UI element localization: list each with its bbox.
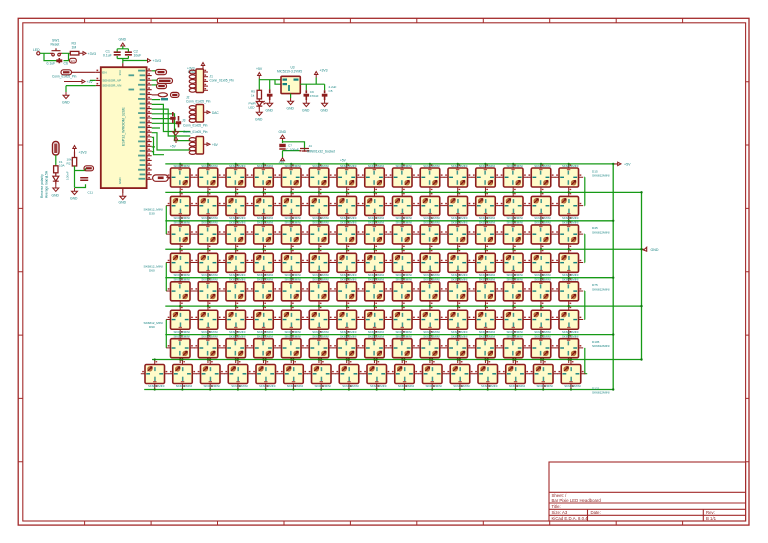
svg-text:3V3: 3V3 (118, 70, 122, 76)
LED D49 (250, 249, 278, 278)
svg-text:R2: R2 (67, 162, 71, 166)
LED D85 (416, 306, 444, 335)
LED D11 (444, 164, 472, 193)
ground (63, 92, 69, 99)
capacitor C2 (125, 52, 132, 55)
LED D44 (527, 221, 555, 250)
wire power bus row 7 (152, 359, 642, 361)
wire to caps (152, 119, 177, 128)
svg-text:GND: GND (255, 118, 263, 122)
LED D33 (222, 221, 250, 250)
resistor R3 (70, 51, 79, 55)
svg-text:GND: GND (70, 197, 78, 201)
LED D55 (416, 249, 444, 278)
svg-text:LED: LED (249, 105, 256, 109)
svg-text:+5V: +5V (256, 67, 263, 71)
LED D116 (418, 360, 446, 389)
svg-text:Conn_01x05_Pin: Conn_01x05_Pin (210, 79, 235, 83)
LED D23 (361, 192, 389, 221)
LED D82 (333, 306, 361, 335)
LED D91 (166, 334, 194, 363)
LED D63 (222, 277, 250, 306)
LED D9 (388, 164, 416, 193)
LED D42 (472, 221, 500, 250)
ground (53, 185, 59, 192)
svg-text:B 1/1: B 1/1 (706, 516, 717, 521)
svg-text:Reset: Reset (51, 43, 60, 47)
LED D67 (333, 277, 361, 306)
LED D66 (305, 277, 333, 306)
LED D83 (361, 306, 389, 335)
LED D113 (335, 360, 363, 389)
LED D43 (499, 221, 527, 250)
node LED0 test point (37, 52, 40, 55)
wire power bus row 5 (165, 305, 641, 307)
svg-text:SK6812MINI: SK6812MINI (592, 391, 610, 395)
LED D81 (305, 306, 333, 335)
LED D68 (361, 277, 389, 306)
svg-text:SK6812MINI: SK6812MINI (592, 174, 610, 178)
svg-text:C11: C11 (88, 191, 94, 195)
LED D17 (194, 192, 222, 221)
capacitor C10 (176, 116, 181, 127)
svg-text:+5V: +5V (340, 159, 347, 163)
wire (117, 46, 147, 63)
svg-text:J4: J4 (309, 144, 313, 148)
LED D25 (416, 192, 444, 221)
LED D110 (252, 360, 280, 389)
svg-text:10uF: 10uF (134, 54, 142, 58)
wire (55, 155, 57, 166)
net tag pin1 (156, 70, 167, 75)
wire power bus row 0 (165, 163, 613, 165)
LED D60 (555, 249, 583, 278)
svg-text:DAC: DAC (212, 111, 219, 115)
wire serpentine left (165, 206, 168, 348)
LED D73 (499, 277, 527, 306)
svg-text:Conn_01x05_Pin: Conn_01x05_Pin (183, 124, 208, 128)
LED D16 (166, 192, 194, 221)
hierarchical label DAC (204, 111, 211, 114)
wire output (300, 78, 324, 91)
title block (549, 462, 746, 521)
wire (75, 166, 86, 188)
LED D76 (166, 306, 194, 335)
svg-text:Size: A3: Size: A3 (552, 510, 568, 515)
svg-text:GND: GND (119, 38, 127, 42)
svg-text:10A: 10A (59, 164, 65, 168)
LED D7 (333, 164, 361, 193)
ground (120, 193, 126, 200)
LED D89 (527, 306, 555, 335)
LED D41 (444, 221, 472, 250)
resistor R5 (257, 90, 261, 99)
svg-text:Title:: Title: (552, 504, 561, 509)
svg-text:470nF: 470nF (310, 94, 319, 98)
svg-text:+5V: +5V (624, 163, 631, 167)
svg-text:GND: GND (52, 194, 60, 198)
LED D50 (277, 249, 305, 278)
LED D115 (391, 360, 419, 389)
svg-text:+3V3: +3V3 (88, 52, 97, 56)
LED D94 (250, 334, 278, 363)
LED D53 (361, 249, 389, 278)
LED D32 (194, 221, 222, 250)
svg-text:Conn_01x05_Pin: Conn_01x05_Pin (186, 99, 211, 103)
LED D48 (222, 249, 250, 278)
wire power bus row 4 (165, 277, 613, 279)
power +3V3 output (315, 72, 318, 78)
wire TXD (152, 99, 161, 101)
LED D92 (194, 334, 222, 363)
wire to IC VDD (122, 63, 124, 67)
LED D56 (444, 249, 472, 278)
LED D84 (388, 306, 416, 335)
power +5V at J3 (204, 143, 211, 146)
LED D37 (333, 221, 361, 250)
LED D59 (527, 249, 555, 278)
LED D46 (166, 249, 194, 278)
LED D20 (277, 192, 305, 221)
LED D69 (388, 277, 416, 306)
LED D51 (305, 249, 333, 278)
svg-text:Bar Pixie LED Headboard: Bar Pixie LED Headboard (552, 498, 602, 503)
LED D74 (527, 277, 555, 306)
wire (40, 53, 70, 60)
wire power bus row 8 (144, 389, 613, 391)
svg-text:D: D (46, 175, 49, 179)
LED D71 (444, 277, 472, 306)
LED D3 (222, 164, 250, 193)
LED D1 (166, 164, 194, 193)
LED D24 (388, 192, 416, 221)
LED D104 (527, 334, 555, 363)
svg-text:GND: GND (62, 101, 70, 105)
diode D129 (53, 173, 59, 185)
net tag EN (70, 58, 77, 63)
svg-text:ESP32_WROOM_32UE: ESP32_WROOM_32UE (122, 107, 126, 146)
net tag VSENSE (84, 166, 94, 171)
LED D36 (305, 221, 333, 250)
LED D87 (472, 306, 500, 335)
LED D97 (333, 334, 361, 363)
LED D58 (499, 249, 527, 278)
svg-text:GND: GND (279, 130, 287, 134)
net tag pin3 (157, 84, 167, 89)
LED D19 (250, 192, 278, 221)
LED D14 (527, 164, 555, 193)
LED D102 (472, 334, 500, 363)
LED D31 (166, 221, 194, 250)
LED D119 (502, 360, 530, 389)
LED D98 (361, 334, 389, 363)
svg-text:D60: D60 (149, 268, 155, 272)
svg-text:Reverse polarity: Reverse polarity (40, 174, 44, 198)
U1 left pins EN / SENSOR_VP / SENSOR_VN (96, 72, 101, 85)
power +3V3 (148, 59, 151, 63)
junction dots rails (612, 163, 643, 391)
net tag DIN input (153, 175, 169, 181)
LED D101 (444, 334, 472, 363)
LED D93 (222, 334, 250, 363)
LED D96 (305, 334, 333, 363)
svg-text:+5V: +5V (212, 143, 219, 147)
connector X1 power jack (53, 142, 60, 156)
LED D45 (555, 221, 583, 250)
LED D108 (196, 360, 224, 389)
svg-text:Conn_01x05_Pin: Conn_01x05_Pin (52, 75, 77, 79)
wire (283, 140, 305, 158)
wire +5V rail right (612, 164, 614, 390)
wire power bus row 1 (165, 191, 641, 193)
wire GND rail right (641, 192, 643, 359)
junction dots (154, 163, 573, 391)
svg-text:MINI01x32_Socket: MINI01x32_Socket (307, 149, 335, 153)
svg-text:Rev:: Rev: (706, 510, 715, 515)
LED D72 (472, 277, 500, 306)
LED D2 (194, 164, 222, 193)
svg-text:EN: EN (71, 59, 75, 63)
svg-text:D90: D90 (149, 325, 155, 329)
capacitor C1 (114, 52, 121, 55)
svg-text:GND: GND (119, 201, 127, 205)
svg-text:SK6812MINI: SK6812MINI (592, 230, 610, 234)
LED D95 (277, 334, 305, 363)
LED D105 (555, 334, 583, 363)
LED D52 (333, 249, 361, 278)
LED D130 (256, 99, 265, 109)
net tag pin2 (157, 78, 173, 83)
LED D30 (555, 192, 583, 221)
wire lower (152, 133, 191, 155)
power +5V small (174, 137, 177, 143)
svg-text:LED: LED (33, 48, 40, 52)
capacitor C8 (170, 112, 175, 123)
wire row8 gnd stubs (155, 389, 571, 390)
svg-text:C5: C5 (329, 89, 333, 93)
LED D35 (277, 221, 305, 250)
ground (173, 129, 179, 136)
LED D62 (194, 277, 222, 306)
power +3V3 (73, 146, 76, 152)
capacitor C9 (304, 90, 310, 100)
svg-text:KiCad E.D.A. 8.0.4: KiCad E.D.A. 8.0.4 (552, 516, 589, 521)
power +5V array (613, 162, 621, 165)
LED D118 (474, 360, 502, 389)
svg-text:GND: GND (302, 109, 310, 113)
LED D4 (250, 164, 278, 193)
LED D8 (361, 164, 389, 193)
LED D39 (388, 221, 416, 250)
svg-text:+3V3: +3V3 (153, 59, 162, 63)
LED D34 (250, 221, 278, 250)
LED D109 (224, 360, 252, 389)
LED D114 (363, 360, 391, 389)
wire serpentine row7-row8 (585, 348, 587, 374)
ground (72, 188, 78, 195)
LED D47 (194, 249, 222, 278)
LED D106 (141, 360, 169, 389)
LED D86 (444, 306, 472, 335)
LED D5 (277, 164, 305, 193)
LED D75 (555, 277, 583, 306)
LED D100 (416, 334, 444, 363)
LED D65 (277, 277, 305, 306)
LED D12 (472, 164, 500, 193)
LED D111 (280, 360, 308, 389)
net tag BOOT on EN (61, 70, 72, 75)
LED D120 (529, 360, 557, 389)
LED D80 (277, 306, 305, 335)
LED D121 (557, 360, 585, 389)
capacitor C6 (56, 58, 62, 63)
svg-text:GND: GND (266, 109, 274, 113)
wire power bus row 2 (165, 220, 613, 222)
capacitor C11 (80, 178, 88, 180)
U1 GND pin bottom (122, 188, 124, 193)
svg-text:D30: D30 (149, 211, 155, 215)
LED D103 (499, 334, 527, 363)
svg-text:100nF: 100nF (66, 171, 70, 180)
svg-text:0.1uF: 0.1uF (103, 54, 112, 58)
LED D22 (333, 192, 361, 221)
svg-text:GND: GND (118, 178, 122, 184)
regulator ground stub (290, 94, 292, 98)
svg-text:J3: J3 (182, 119, 186, 123)
svg-text:SENSOR_VP: SENSOR_VP (102, 78, 121, 82)
wire power bus row 3 (165, 248, 641, 250)
fuse F1 (54, 166, 58, 173)
LED D117 (446, 360, 474, 389)
LED D15 (555, 164, 583, 193)
svg-text:+3V3: +3V3 (320, 69, 328, 73)
LED D54 (388, 249, 416, 278)
LED D21 (305, 192, 333, 221)
svg-text:+5V: +5V (170, 145, 177, 149)
LED D99 (388, 334, 416, 363)
LED D26 (444, 192, 472, 221)
LED D18 (222, 192, 250, 221)
svg-text:SK6812MINI: SK6812MINI (592, 287, 610, 291)
wire sensor pins (66, 80, 96, 92)
resistor R2 (74, 152, 76, 158)
svg-text:GND: GND (321, 109, 329, 113)
LED D88 (499, 306, 527, 335)
capacitor C4 (267, 89, 273, 100)
LED D13 (499, 164, 527, 193)
svg-text:1M: 1M (72, 46, 77, 50)
svg-text:GND: GND (287, 107, 295, 111)
LED D78 (222, 306, 250, 335)
wire (259, 79, 281, 91)
svg-text:MIC5219-3.3YM5: MIC5219-3.3YM5 (277, 70, 302, 74)
wire power bus row 6 (165, 334, 613, 336)
svg-text:SK6812MINI: SK6812MINI (592, 344, 610, 348)
LED D90 (555, 306, 583, 335)
connector J4 socket (300, 149, 310, 152)
switch SW1 (50, 48, 62, 56)
LED D38 (361, 221, 389, 250)
LED D77 (194, 306, 222, 335)
power +3V3 (79, 52, 86, 55)
U1 right pin stubs with pin numbers (147, 71, 152, 180)
wire serpentine right (583, 177, 586, 319)
LED D27 (472, 192, 500, 221)
LED D40 (416, 221, 444, 250)
svg-text:Conn_01x05_Pin: Conn_01x05_Pin (183, 130, 208, 134)
LED D10 (416, 164, 444, 193)
svg-text:Date:: Date: (591, 510, 601, 515)
resistor R4 + net tag (158, 93, 167, 97)
capacitor C7 polarized (279, 144, 285, 147)
LED D28 (499, 192, 527, 221)
LED D112 (307, 360, 335, 389)
svg-text:C_100uF: C_100uF (286, 148, 299, 152)
svg-text:1k: 1k (251, 93, 255, 97)
LED D79 (250, 306, 278, 335)
svg-text:SENSOR_VN: SENSOR_VN (102, 84, 121, 88)
LED D70 (416, 277, 444, 306)
svg-text:EN: EN (102, 70, 106, 74)
op-amp U1 ESP32-WROOM-32UE module body (101, 67, 147, 188)
power GND flag array (642, 247, 647, 251)
wire bus to J2 (152, 104, 191, 140)
ground (256, 109, 262, 116)
capacitor C5 (322, 90, 328, 100)
power +5V (281, 158, 285, 161)
svg-text:0.1uF: 0.1uF (47, 62, 56, 66)
LED D61 (166, 277, 194, 306)
LED D64 (250, 277, 278, 306)
LED D29 (527, 192, 555, 221)
LED D107 (169, 360, 197, 389)
svg-text:+3V3: +3V3 (79, 151, 87, 155)
LED D6 (305, 164, 333, 193)
svg-text:C6: C6 (64, 62, 68, 66)
LED D57 (472, 249, 500, 278)
svg-text:GND: GND (651, 248, 659, 252)
power +3V3 left of U1 (64, 80, 85, 83)
